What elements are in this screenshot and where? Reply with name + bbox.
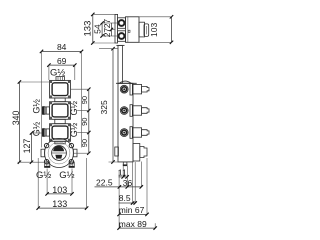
svg-text:27: 27 — [102, 19, 112, 29]
svg-text:G½: G½ — [32, 121, 42, 136]
svg-text:127: 127 — [22, 139, 32, 154]
svg-text:90: 90 — [80, 139, 89, 147]
svg-text:69: 69 — [57, 56, 67, 66]
svg-text:8.5: 8.5 — [119, 193, 131, 203]
svg-text:G½: G½ — [69, 122, 79, 137]
svg-text:G½: G½ — [59, 170, 74, 181]
svg-text:27: 27 — [102, 28, 112, 38]
svg-text:325: 325 — [99, 100, 109, 114]
svg-text:G½: G½ — [69, 100, 79, 115]
svg-text:11: 11 — [118, 167, 127, 177]
svg-text:84: 84 — [57, 42, 67, 52]
svg-text:103: 103 — [149, 23, 159, 37]
svg-text:min 67: min 67 — [119, 205, 145, 215]
svg-text:340: 340 — [11, 111, 21, 126]
svg-text:103: 103 — [52, 185, 67, 195]
svg-text:133: 133 — [52, 199, 67, 209]
svg-text:36: 36 — [123, 178, 133, 188]
svg-text:G½: G½ — [32, 99, 42, 114]
svg-text:90: 90 — [80, 96, 89, 104]
svg-text:22.5: 22.5 — [96, 177, 113, 187]
svg-text:max 89: max 89 — [119, 219, 147, 229]
svg-text:90: 90 — [80, 118, 89, 126]
